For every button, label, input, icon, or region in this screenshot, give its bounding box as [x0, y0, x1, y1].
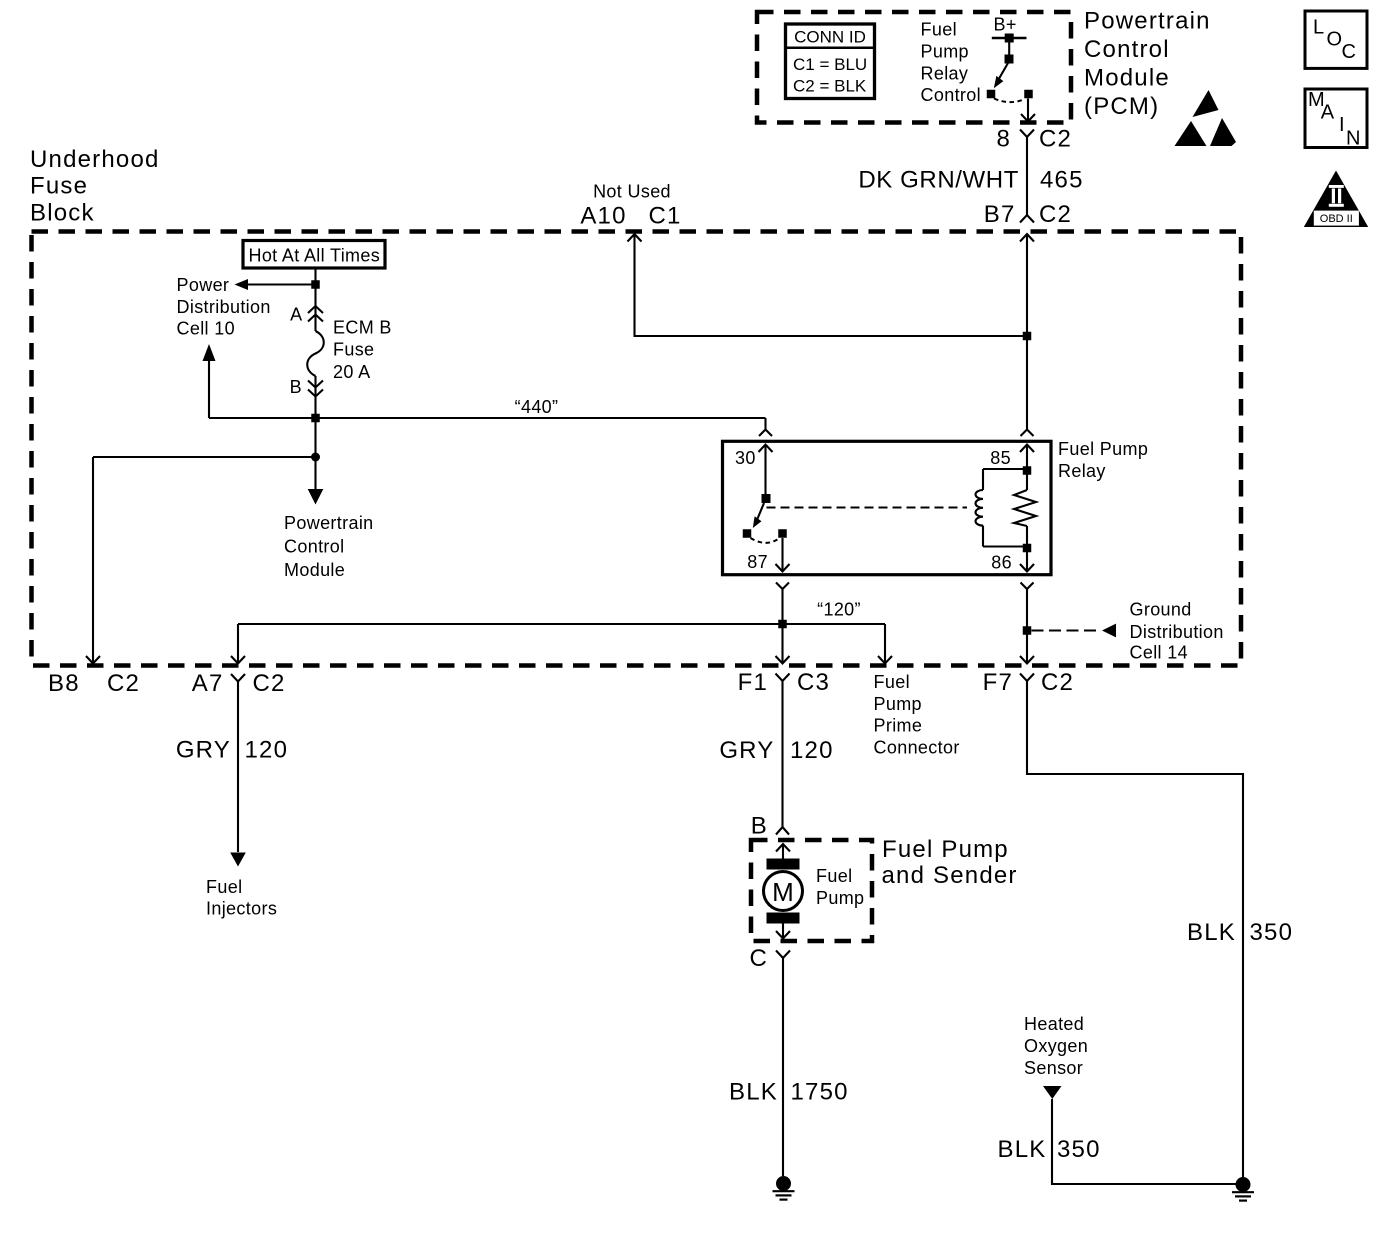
svg-text:C3: C3: [797, 669, 830, 696]
svg-text:Oxygen: Oxygen: [1024, 1036, 1088, 1056]
svg-text:and Sender: and Sender: [882, 862, 1018, 889]
svg-text:C: C: [1342, 41, 1356, 63]
svg-text:Module: Module: [1084, 65, 1170, 92]
svg-text:C1: C1: [648, 203, 681, 230]
svg-text:C2 = BLK: C2 = BLK: [793, 77, 867, 96]
svg-text:Powertrain: Powertrain: [284, 513, 374, 533]
svg-text:Module: Module: [284, 560, 345, 580]
svg-text:20 A: 20 A: [333, 362, 370, 382]
svg-text:GRY: GRY: [176, 737, 231, 764]
svg-text:Ground: Ground: [1130, 600, 1192, 620]
svg-text:85: 85: [990, 448, 1011, 468]
svg-text:Distribution: Distribution: [177, 297, 271, 317]
svg-text:Power: Power: [177, 275, 230, 295]
svg-text:Relay: Relay: [1058, 461, 1106, 481]
svg-text:Prime: Prime: [874, 716, 923, 736]
svg-text:Fuse: Fuse: [333, 340, 374, 360]
svg-text:DK GRN/WHT: DK GRN/WHT: [858, 167, 1019, 194]
svg-text:Control: Control: [1084, 36, 1170, 63]
svg-text:Hot At All Times: Hot At All Times: [248, 246, 380, 266]
svg-text:BLK: BLK: [998, 1136, 1047, 1163]
svg-text:M: M: [772, 877, 794, 907]
svg-text:Sensor: Sensor: [1024, 1058, 1083, 1078]
svg-text:O: O: [1327, 28, 1343, 50]
svg-text:B8: B8: [48, 670, 80, 697]
svg-text:C2: C2: [1039, 126, 1072, 153]
svg-text:Powertrain: Powertrain: [1084, 8, 1211, 35]
svg-text:L: L: [1313, 17, 1324, 39]
svg-text:C2: C2: [1039, 201, 1072, 228]
svg-text:350: 350: [1057, 1136, 1101, 1163]
svg-text:Cell 10: Cell 10: [177, 319, 235, 339]
svg-text:Fuel Pump: Fuel Pump: [1058, 439, 1148, 459]
svg-text:30: 30: [735, 448, 756, 468]
svg-text:Fuel: Fuel: [816, 866, 852, 886]
svg-text:Fuel Pump: Fuel Pump: [882, 836, 1009, 863]
svg-text:Block: Block: [30, 200, 95, 227]
svg-text:Distribution: Distribution: [1130, 622, 1224, 642]
svg-text:B7: B7: [984, 201, 1016, 228]
svg-text:C: C: [749, 945, 768, 972]
svg-text:Fuel: Fuel: [921, 20, 957, 40]
svg-text:F7: F7: [983, 669, 1013, 696]
svg-text:C1 = BLU: C1 = BLU: [793, 55, 867, 74]
svg-text:Cell 14: Cell 14: [1130, 643, 1188, 663]
svg-text:F1: F1: [738, 669, 768, 696]
svg-text:Underhood: Underhood: [30, 146, 160, 173]
svg-text:1750: 1750: [791, 1079, 849, 1106]
svg-text:Heated: Heated: [1024, 1014, 1084, 1034]
svg-text:120: 120: [790, 737, 834, 764]
svg-text:8: 8: [996, 126, 1011, 153]
svg-text:Fuse: Fuse: [30, 173, 88, 200]
svg-text:I: I: [1339, 114, 1345, 136]
svg-text:Fuel: Fuel: [874, 672, 910, 692]
svg-text:B: B: [290, 377, 302, 397]
svg-text:B+: B+: [994, 15, 1017, 35]
svg-text:A: A: [1321, 102, 1335, 124]
svg-text:Fuel: Fuel: [206, 877, 242, 897]
svg-text:N: N: [1346, 128, 1360, 150]
svg-text:Not Used: Not Used: [593, 182, 671, 202]
svg-text:A: A: [290, 305, 302, 325]
svg-text:A7: A7: [192, 670, 224, 697]
svg-text:465: 465: [1040, 167, 1084, 194]
svg-text:Connector: Connector: [874, 737, 960, 757]
svg-text:OBD II: OBD II: [1320, 213, 1353, 225]
svg-text:Relay: Relay: [921, 63, 969, 83]
svg-text:BLK: BLK: [729, 1079, 778, 1106]
svg-text:CONN ID: CONN ID: [794, 28, 866, 47]
svg-text:C2: C2: [1041, 669, 1074, 696]
svg-text:“440”: “440”: [515, 397, 559, 417]
svg-text:Control: Control: [284, 537, 344, 557]
svg-text:Pump: Pump: [874, 694, 922, 714]
svg-text:C2: C2: [253, 670, 286, 697]
svg-text:A10: A10: [580, 203, 626, 230]
svg-text:(PCM): (PCM): [1084, 93, 1159, 120]
svg-text:GRY: GRY: [719, 737, 774, 764]
svg-text:Control: Control: [921, 85, 981, 105]
svg-text:86: 86: [991, 553, 1012, 573]
svg-text:B: B: [751, 813, 768, 840]
svg-text:BLK: BLK: [1187, 919, 1236, 946]
svg-text:120: 120: [245, 737, 289, 764]
svg-text:Pump: Pump: [921, 41, 969, 61]
svg-text:ECM B: ECM B: [333, 318, 392, 338]
svg-text:“120”: “120”: [817, 600, 861, 620]
svg-text:C2: C2: [107, 670, 140, 697]
svg-text:Pump: Pump: [816, 888, 864, 908]
svg-text:87: 87: [747, 552, 768, 572]
svg-text:Injectors: Injectors: [206, 899, 277, 919]
svg-text:350: 350: [1250, 919, 1294, 946]
